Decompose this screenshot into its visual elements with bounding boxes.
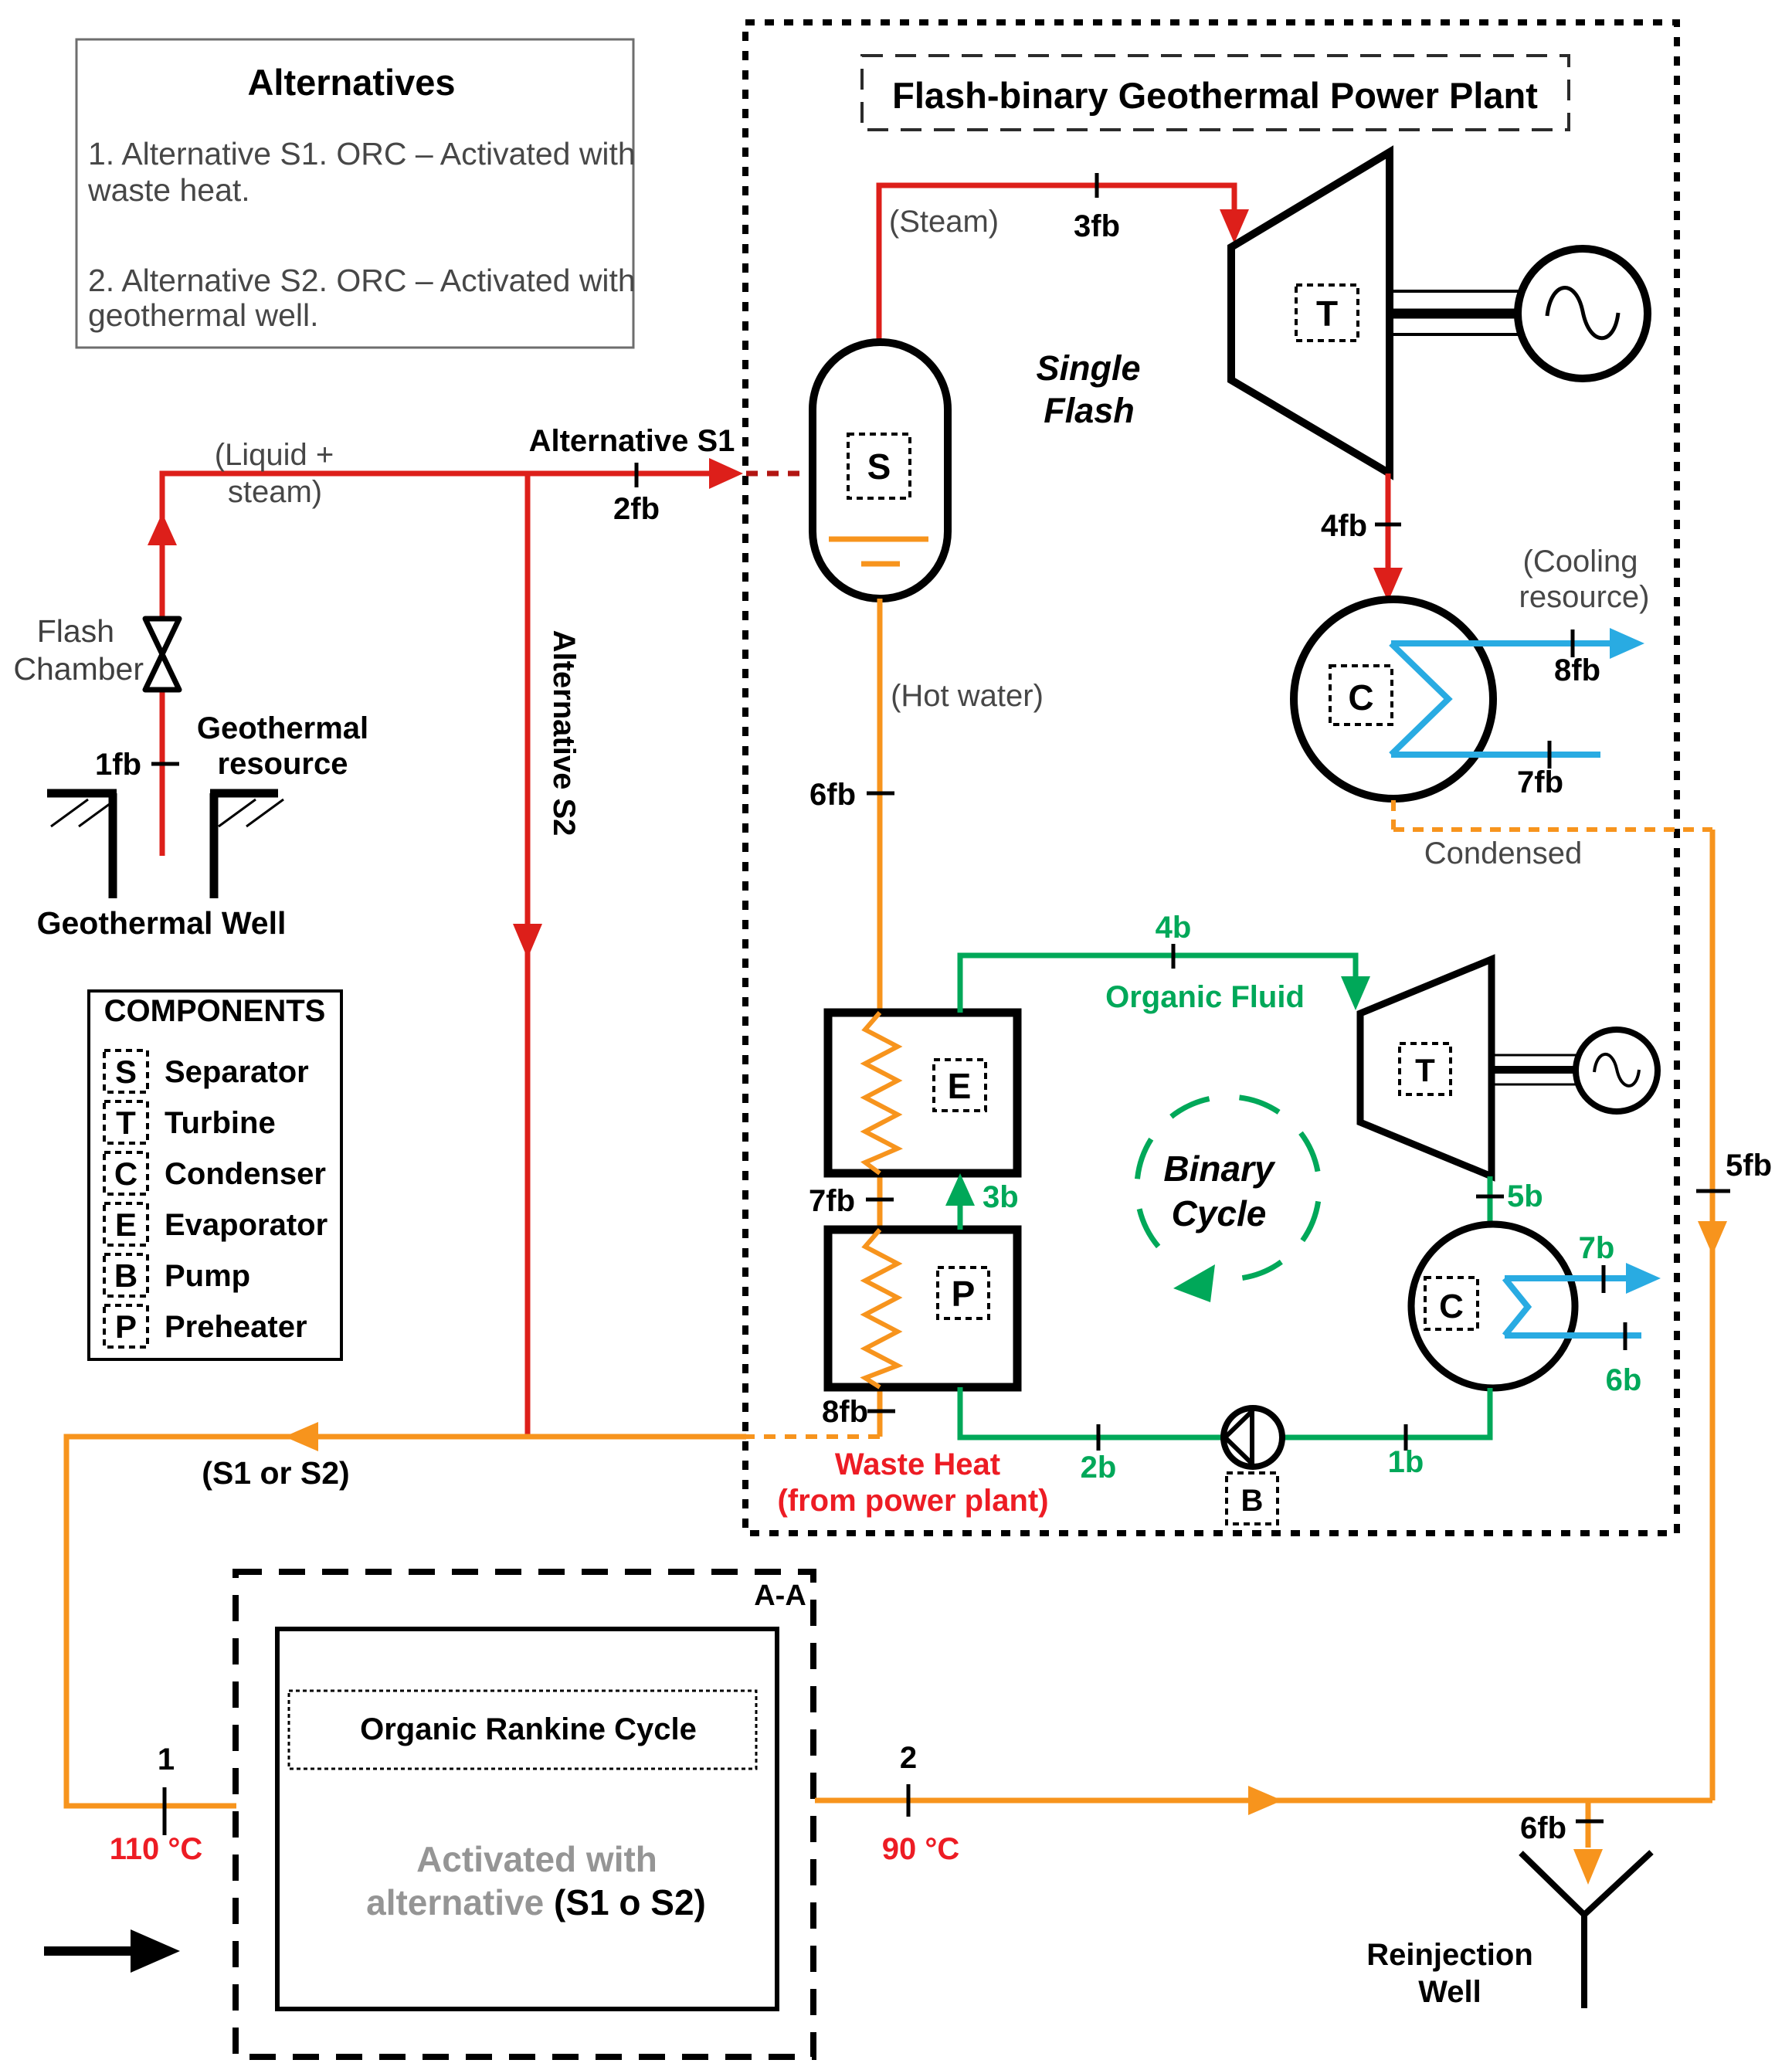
svg-text:Alternative S1: Alternative S1 xyxy=(529,424,735,458)
svg-text:Pump: Pump xyxy=(165,1259,250,1293)
svg-text:(Steam): (Steam) xyxy=(889,205,999,239)
wire: drop to reinjection well (orange, 6fb) xyxy=(1573,1800,1603,1885)
wire: Alternative S2 drop (red) xyxy=(513,473,581,1434)
svg-text:S: S xyxy=(867,446,891,487)
node 7b xyxy=(1579,1231,1615,1293)
Alternatives legend box xyxy=(76,39,636,348)
node 4fb xyxy=(1321,509,1401,543)
svg-text:Organic Fluid: Organic Fluid xyxy=(1105,980,1305,1014)
label (Cooling resource) xyxy=(1519,545,1650,614)
node 2fb xyxy=(613,463,660,526)
separator S vessel xyxy=(813,342,948,599)
label Single Flash xyxy=(1036,348,1140,430)
svg-text:Flash-binary Geothermal Power: Flash-binary Geothermal Power Plant xyxy=(892,75,1538,116)
svg-text:E: E xyxy=(115,1206,137,1243)
svg-text:P: P xyxy=(952,1274,976,1314)
svg-text:5fb: 5fb xyxy=(1726,1149,1772,1183)
COMPONENTS legend box xyxy=(89,991,341,1359)
node 5b xyxy=(1476,1179,1543,1213)
preheater P xyxy=(828,1230,1017,1387)
svg-text:6b: 6b xyxy=(1606,1363,1642,1397)
ORC box xyxy=(277,1629,777,2009)
svg-text:A-A: A-A xyxy=(754,1580,806,1612)
node 3fb xyxy=(1074,173,1120,243)
turbine T1 (single flash) xyxy=(1231,152,1390,473)
label (Liquid + steam) xyxy=(215,438,334,509)
svg-text:90 °C: 90 °C xyxy=(882,1832,960,1866)
label geothermal resource xyxy=(197,711,368,781)
wire: reinjection line right side (orange, 5fb) xyxy=(1698,830,1727,1800)
evaporator E xyxy=(828,1013,1017,1173)
wire: ORC outlet to reinjection (orange, 2) xyxy=(815,1786,1712,1815)
label Waste Heat (from power plant) xyxy=(777,1447,1048,1518)
generator G2 xyxy=(1576,1030,1658,1111)
svg-text:Single: Single xyxy=(1036,348,1140,388)
svg-text:Flash: Flash xyxy=(1044,391,1135,430)
svg-text:P: P xyxy=(115,1308,137,1345)
pump B xyxy=(1224,1408,1282,1524)
svg-text:Cycle: Cycle xyxy=(1172,1193,1267,1234)
node 8fb (cooling out) xyxy=(1554,629,1600,687)
generator G1 xyxy=(1518,249,1648,378)
wire: waste heat dashed (orange) xyxy=(746,1434,880,1439)
svg-text:4b: 4b xyxy=(1156,911,1192,945)
svg-text:110 °C: 110 °C xyxy=(110,1832,203,1866)
svg-text:resource): resource) xyxy=(1519,580,1650,614)
svg-text:Alternative S2: Alternative S2 xyxy=(547,630,581,836)
svg-text:Preheater: Preheater xyxy=(165,1310,307,1344)
svg-text:Reinjection: Reinjection xyxy=(1366,1938,1533,1972)
flash chamber valve xyxy=(13,613,179,690)
svg-text:E: E xyxy=(948,1066,972,1106)
svg-text:geothermal well.: geothermal well. xyxy=(88,297,319,333)
svg-text:Activated with: Activated with xyxy=(416,1839,657,1879)
svg-text:3fb: 3fb xyxy=(1074,209,1120,243)
wire: geothermal well riser (red, 1fb) xyxy=(148,458,743,856)
svg-text:Geothermal: Geothermal xyxy=(197,711,368,745)
svg-text:Turbine: Turbine xyxy=(165,1106,276,1140)
svg-text:alternative (S1 o S2): alternative (S1 o S2) xyxy=(366,1882,706,1922)
svg-text:7b: 7b xyxy=(1579,1231,1615,1265)
node 6fb (hot water) xyxy=(809,778,894,812)
svg-text:8fb: 8fb xyxy=(1554,653,1600,687)
svg-text:(Liquid +: (Liquid + xyxy=(215,438,334,472)
svg-text:Waste Heat: Waste Heat xyxy=(835,1447,1000,1481)
wire: 4b evaporator to turbine 2 (green) xyxy=(960,955,1370,1013)
wire: condensate loop bottom (green, 1b/2b) xyxy=(960,1387,1490,1437)
wire: cooling water out C1 (cyan, 8fb) xyxy=(1391,628,1644,755)
node 2b xyxy=(1081,1424,1117,1485)
svg-text:6fb: 6fb xyxy=(809,778,856,812)
node 1 (ORC inlet) xyxy=(110,1743,203,1866)
svg-text:B: B xyxy=(1241,1484,1264,1518)
generator G2 shaft xyxy=(1495,1055,1577,1084)
svg-text:Separator: Separator xyxy=(165,1055,309,1089)
svg-text:6fb: 6fb xyxy=(1520,1811,1566,1845)
svg-text:Alternatives: Alternatives xyxy=(247,62,455,103)
wire: dashed red into separator xyxy=(746,471,811,477)
svg-text:Well: Well xyxy=(1418,1975,1481,2009)
svg-text:T: T xyxy=(116,1105,136,1141)
svg-text:C: C xyxy=(1348,677,1373,718)
svg-text:4fb: 4fb xyxy=(1321,509,1367,543)
svg-text:1: 1 xyxy=(158,1743,175,1776)
node 1b xyxy=(1388,1424,1424,1479)
reinjection well symbol xyxy=(1366,1852,1651,2009)
svg-text:steam): steam) xyxy=(228,475,322,509)
svg-text:Flash: Flash xyxy=(37,613,114,649)
svg-text:waste heat.: waste heat. xyxy=(87,172,250,208)
wire: 5b turbine 2 to condenser 2 (green) xyxy=(1488,1176,1493,1224)
svg-text:3b: 3b xyxy=(983,1180,1019,1214)
wire: steam line separator to turbine (red, 3fb) xyxy=(879,185,1249,342)
node 6fb (reinjection) xyxy=(1520,1811,1604,1845)
turbine T2 (binary) xyxy=(1360,959,1492,1176)
svg-text:(from power plant): (from power plant) xyxy=(777,1484,1048,1518)
svg-text:1fb: 1fb xyxy=(95,748,141,782)
svg-text:Chamber: Chamber xyxy=(13,651,144,687)
svg-text:COMPONENTS: COMPONENTS xyxy=(104,994,326,1028)
node 1fb xyxy=(95,748,179,782)
wire: S1-or-S2 return line (orange) xyxy=(66,1422,746,1806)
svg-text:2. Alternative S2. ORC – Activ: 2. Alternative S2. ORC – Activated with xyxy=(88,263,636,298)
svg-text:5b: 5b xyxy=(1507,1179,1543,1213)
node 7fb (cooling in) xyxy=(1517,741,1563,799)
svg-text:Binary: Binary xyxy=(1163,1149,1276,1189)
title box Flash-binary Geothermal Power Plant xyxy=(862,56,1569,130)
main plant dotted border xyxy=(745,22,1677,1533)
node 6b xyxy=(1606,1322,1642,1397)
svg-text:resource: resource xyxy=(218,747,348,781)
node 4b xyxy=(1156,911,1192,969)
black section arrow xyxy=(44,1929,180,1973)
wire: turbine T1 exhaust to condenser (red, 4fb) xyxy=(1373,473,1403,602)
svg-text:7fb: 7fb xyxy=(809,1184,855,1218)
node 8fb (after preheater) xyxy=(822,1395,895,1429)
wire: cooling out C2 (cyan, 7b) xyxy=(1505,1263,1661,1335)
wire: hot water from separator (orange, 6fb) xyxy=(877,599,883,1437)
svg-text:2fb: 2fb xyxy=(613,492,660,526)
wire: 3b preheater to evaporator (green) xyxy=(945,1173,1019,1230)
svg-text:Condensed: Condensed xyxy=(1424,836,1583,870)
svg-text:T: T xyxy=(1316,294,1338,334)
geothermal well ground symbol xyxy=(37,793,287,941)
svg-text:Condenser: Condenser xyxy=(165,1157,326,1191)
svg-text:S: S xyxy=(115,1054,137,1090)
svg-text:B: B xyxy=(114,1257,137,1294)
svg-text:(S1 or S2): (S1 or S2) xyxy=(202,1455,349,1491)
svg-text:(Cooling: (Cooling xyxy=(1523,545,1638,579)
svg-text:Evaporator: Evaporator xyxy=(165,1208,328,1242)
A-A section dashed box xyxy=(236,1572,813,2057)
svg-text:(Hot water): (Hot water) xyxy=(891,679,1044,713)
svg-text:8fb: 8fb xyxy=(822,1395,868,1429)
generator G1 shaft xyxy=(1393,291,1519,334)
svg-text:2: 2 xyxy=(900,1741,917,1775)
binary cycle dashed circle xyxy=(1137,1097,1319,1302)
svg-text:7fb: 7fb xyxy=(1517,765,1563,799)
svg-text:C: C xyxy=(1439,1288,1464,1325)
node 2 xyxy=(882,1741,960,1866)
node 7fb (between E and P) xyxy=(809,1184,894,1218)
svg-text:Organic Rankine Cycle: Organic Rankine Cycle xyxy=(360,1712,697,1746)
condenser C2 xyxy=(1411,1224,1575,1388)
svg-text:T: T xyxy=(1415,1052,1435,1088)
svg-text:C: C xyxy=(114,1155,137,1192)
svg-text:2b: 2b xyxy=(1081,1451,1117,1485)
node 5fb xyxy=(1696,1149,1772,1191)
condenser C1 xyxy=(1294,599,1493,799)
svg-text:Geothermal Well: Geothermal Well xyxy=(37,905,287,941)
svg-text:1. Alternative S1. ORC – Activ: 1. Alternative S1. ORC – Activated with xyxy=(88,136,636,171)
svg-text:1b: 1b xyxy=(1388,1445,1424,1479)
wire: condensed water dashed (orange) xyxy=(1393,800,1712,830)
